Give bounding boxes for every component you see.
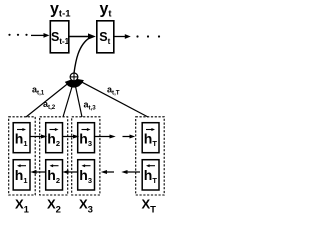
label forward h1 (15, 128, 28, 148)
arrow backward h3 to h2 (62, 170, 77, 174)
box backward hT (142, 160, 159, 190)
box backward h3 (78, 160, 95, 190)
box s_t-1 (50, 21, 69, 53)
box backward h1 (13, 160, 30, 190)
arrow out of s_t (114, 34, 131, 39)
encoder block 4 (dashed) (136, 117, 165, 195)
encoder block 1 (dashed) (9, 117, 36, 195)
label backward h1 (15, 164, 28, 185)
arrow backward h2 to h1 (30, 170, 45, 174)
box forward h2 (46, 123, 63, 153)
label forward h2 (47, 128, 60, 148)
arrow forward h3 to gap (95, 135, 116, 139)
arrow gap to forward hT (123, 135, 136, 139)
box forward h3 (78, 123, 95, 153)
plus node (circled +) (70, 73, 78, 81)
box backward h2 (46, 160, 63, 190)
label forward h3 (79, 128, 92, 148)
box forward h1 (13, 123, 30, 153)
arrow forward h2 to h3 (63, 135, 80, 139)
arrow backward hT to gap (121, 170, 140, 174)
box forward hT (142, 123, 159, 153)
wire h2 to plus node (63, 84, 73, 118)
wire s_t-1 to s_t (69, 33, 96, 39)
arrow into s_t-1 (31, 33, 50, 38)
label backward hT (144, 164, 158, 185)
encoder block 2 (dashed) (40, 117, 68, 195)
label forward hT (144, 128, 158, 148)
arrow gap to backward h3 (101, 170, 114, 174)
label backward h3 (79, 164, 92, 185)
left ellipsis dots (8, 34, 27, 36)
wire h1 to plus node (26, 81, 72, 117)
right ellipsis dots (136, 35, 160, 37)
encoder block 3 (dashed) (72, 117, 100, 195)
wire context curve from plus node to s_t (74, 38, 90, 74)
arrow forward h1 to h2 (30, 135, 47, 139)
box s_t (97, 21, 114, 53)
arrowheads converging on plus node (65, 79, 84, 88)
wire h3 to plus node (75, 84, 82, 118)
wire hT to plus node (78, 80, 149, 117)
label backward h2 (47, 164, 60, 185)
